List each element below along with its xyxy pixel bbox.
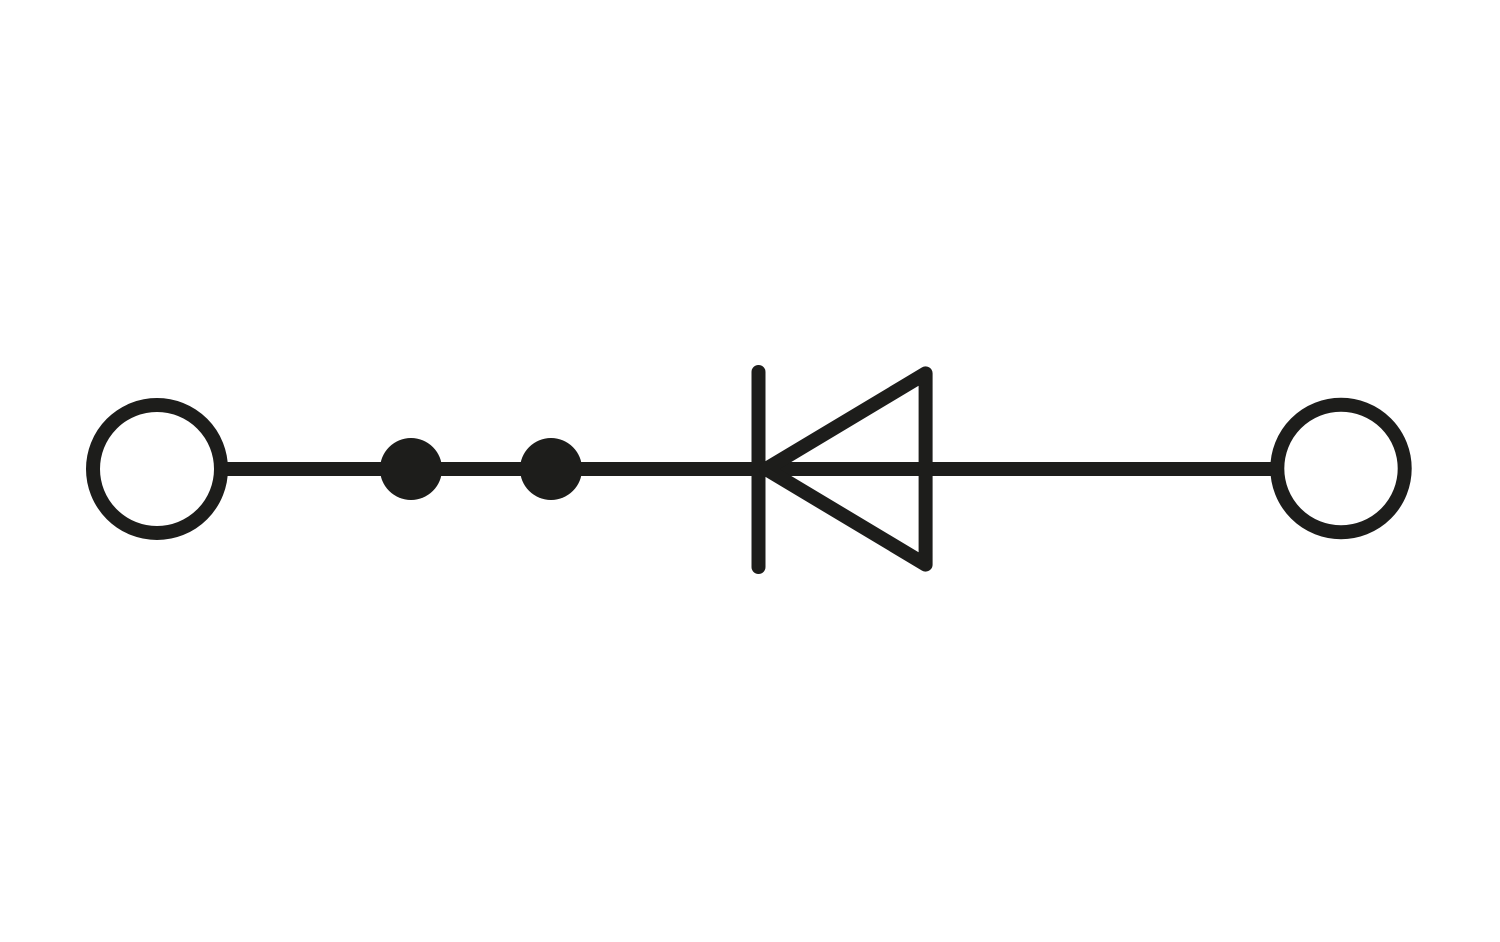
- wire: [222, 462, 1276, 476]
- junction dot 2: [520, 438, 582, 500]
- terminal circle left: [93, 405, 221, 533]
- diode D1 cathode bar: [752, 372, 766, 567]
- terminal circle right: [1277, 405, 1404, 532]
- diode D1 triangle (anode, pointing left): [766, 373, 926, 564]
- junction dot 1: [380, 438, 442, 500]
